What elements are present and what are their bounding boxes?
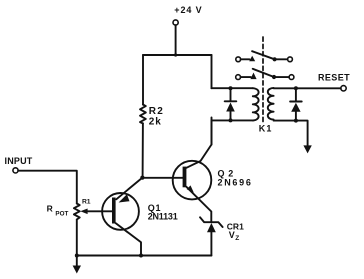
- wire: bus right leg down to relay: [211, 55, 213, 88]
- wire: contact 1 left lead: [241, 58, 250, 60]
- svg-text:2N696: 2N696: [218, 178, 253, 188]
- svg-text:Z: Z: [235, 235, 239, 242]
- relay mechanical link (dashed): [262, 37, 264, 124]
- wire: bus left leg down to R2: [142, 55, 144, 105]
- wire: contact 2 left lead: [241, 76, 251, 78]
- +24V supply terminal: [173, 20, 178, 25]
- node: pot/ground junction: [75, 254, 79, 258]
- relay contact 2 left terminal: [236, 75, 241, 80]
- transistor Q2: [173, 161, 212, 200]
- ground rail wire: [77, 255, 212, 257]
- svg-text:R1: R1: [82, 199, 91, 206]
- svg-text:+24 V: +24 V: [174, 5, 202, 15]
- node A junction dot: [140, 176, 144, 180]
- node: Q1 collector junction: [139, 254, 143, 258]
- relay contact 1 left terminal: [236, 57, 241, 62]
- svg-text:RESET: RESET: [318, 72, 350, 82]
- wire: Q2 emitter to zener: [186, 187, 211, 222]
- svg-text:R2: R2: [149, 106, 164, 117]
- svg-text:R: R: [47, 203, 53, 213]
- wire: Q2 collector to relay: [186, 118, 211, 168]
- wire: node A to Q1 emitter: [116, 178, 142, 200]
- contact 1 pivot dot: [273, 57, 277, 61]
- wire: pot bottom to ground rail: [76, 220, 78, 256]
- relay K1 left coil: [253, 88, 259, 120]
- svg-text:2k: 2k: [149, 117, 162, 128]
- ground arrow (left): [73, 256, 81, 274]
- wire: Q1 base lead: [87, 210, 113, 212]
- node: right diode top junction: [294, 86, 298, 90]
- svg-text:2N1131: 2N1131: [148, 212, 178, 222]
- node: bus junction: [174, 53, 177, 56]
- contact 2 fixed contact triangle: [250, 73, 256, 80]
- svg-text:V: V: [229, 230, 235, 240]
- relay K1 right coil: [268, 88, 274, 120]
- node: left diode bottom junction: [229, 118, 233, 122]
- node: left diode top junction: [229, 86, 233, 90]
- contact 2 pivot dot: [272, 75, 276, 79]
- zener diode CR1: [200, 217, 223, 232]
- relay K1 left loop top wire: [212, 87, 253, 89]
- resistor R2: [140, 105, 146, 124]
- node: right diode bottom junction: [294, 119, 298, 123]
- wire: input terminal lead: [13, 168, 18, 173]
- svg-text:INPUT: INPUT: [5, 156, 33, 166]
- wire: R2 to node A: [142, 123, 144, 176]
- wire: Q1 collector to ground rail: [116, 223, 141, 255]
- contact 2 movable arm: [253, 69, 274, 77]
- contact 1 movable arm: [252, 51, 275, 59]
- RESET terminal: [341, 86, 346, 91]
- wire: CR1 anode to ground rail: [210, 232, 212, 255]
- wire: contact 2 right lead: [274, 76, 289, 78]
- wire: left loop down to Q2 collector: [211, 120, 213, 144]
- wire: +24V terminal to bus: [175, 25, 177, 55]
- relay K1 left loop bottom wire: [212, 119, 253, 121]
- ground arrow (right): [303, 145, 311, 153]
- wire: node A to Q2 base: [142, 177, 183, 179]
- wire: input to pot top: [18, 171, 77, 204]
- wire: contact 1 right lead: [275, 58, 288, 60]
- svg-text:POT: POT: [55, 211, 68, 218]
- relay contact 1 right terminal: [288, 57, 293, 62]
- relay K1 right loop top wire to RESET: [274, 87, 341, 89]
- potentiometer R_POT / R1: [74, 204, 88, 220]
- wire: top bus: [143, 54, 212, 56]
- relay K1 right loop bottom wire: [274, 121, 308, 146]
- transistor Q1: [102, 193, 139, 230]
- svg-text:K1: K1: [259, 123, 273, 133]
- diode across left coil: [225, 88, 237, 120]
- relay contact 2 right terminal: [289, 75, 294, 80]
- diode across right coil: [290, 88, 302, 120]
- contact 1 fixed contact triangle: [249, 56, 255, 62]
